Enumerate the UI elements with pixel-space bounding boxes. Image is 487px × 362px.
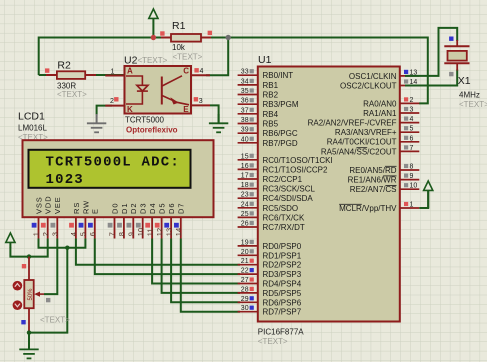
wire opto E to ground: [210, 105, 219, 123]
svg-text:RD3/PSP3: RD3/PSP3: [263, 270, 302, 279]
svg-text:<TEXT>: <TEXT>: [173, 53, 203, 62]
ground bottom left: [28, 333, 30, 349]
svg-text:21: 21: [241, 258, 249, 265]
U1 pin 20 RD1/PSP1: [238, 254, 258, 256]
svg-text:LM016L: LM016L: [18, 124, 47, 133]
svg-text:RD2/PSP2: RD2/PSP2: [263, 261, 302, 270]
svg-text:RA4/T0CKI/C1OUT: RA4/T0CKI/C1OUT: [327, 138, 397, 147]
junction node R1 right / RA0 / opto C: [226, 35, 231, 40]
svg-text:15: 15: [241, 153, 249, 160]
junction pot bottom: [27, 330, 31, 334]
svg-text:26: 26: [241, 221, 249, 228]
svg-text:D1: D1: [120, 203, 129, 214]
svg-text:RW: RW: [81, 200, 90, 214]
svg-text:8: 8: [117, 232, 126, 236]
svg-text:1: 1: [32, 232, 41, 236]
U1 pin 3 (right): [400, 112, 420, 114]
LCD screen: [29, 150, 191, 188]
svg-text:22: 22: [241, 268, 249, 275]
svg-text:RC5/SDO: RC5/SDO: [263, 204, 299, 213]
svg-text:<TEXT>: <TEXT>: [138, 56, 168, 65]
junction pot top: [27, 254, 31, 258]
wire D6 to RD6: [171, 239, 240, 303]
svg-text:12: 12: [155, 228, 164, 236]
svg-text:MCLR/Vpp/THV: MCLR/Vpp/THV: [339, 204, 397, 213]
svg-text:5: 5: [79, 232, 88, 236]
svg-text:RB1: RB1: [263, 81, 279, 90]
wire VEE to pot wiper: [44, 239, 57, 295]
U1 pin 16 RC1/T1OSI/CCP2: [238, 168, 258, 170]
svg-text:RD6/PSP6: RD6/PSP6: [263, 298, 302, 307]
potentiometer RV (LCD contrast): [28, 257, 30, 280]
svg-text:RA1/AN1: RA1/AN1: [363, 109, 397, 118]
svg-text:10k: 10k: [172, 43, 186, 52]
power +5V arrow MCLR: [427, 190, 429, 208]
wire D7 to RD7: [181, 239, 240, 312]
svg-text:RB6/PGC: RB6/PGC: [263, 129, 298, 138]
svg-text:4MHz: 4MHz: [459, 90, 480, 99]
svg-text:RB4: RB4: [263, 110, 279, 119]
wire D5 to RD5: [162, 239, 240, 293]
wire opto C to R1 junction: [206, 38, 228, 76]
svg-text:VSS: VSS: [34, 196, 43, 214]
svg-text:1: 1: [410, 202, 414, 209]
svg-text:11: 11: [145, 228, 154, 236]
crystal X1: [456, 40, 458, 46]
svg-text:D6: D6: [167, 203, 176, 214]
svg-text:2: 2: [110, 98, 114, 105]
svg-text:7: 7: [410, 145, 414, 152]
svg-text:RD1/PSP1: RD1/PSP1: [263, 251, 302, 260]
svg-text:X1: X1: [458, 75, 471, 87]
wire OSC1 to crystal: [405, 28, 457, 76]
ground under opto K (gray): [96, 114, 98, 123]
svg-text:23: 23: [241, 192, 249, 199]
U1 pin 38 RB5: [238, 123, 258, 125]
U1 pin 34 RB1: [238, 84, 258, 86]
svg-text:40: 40: [241, 136, 249, 143]
U1 pin 1 (right): [400, 207, 420, 209]
LCD LM016L body: [23, 140, 214, 217]
U1 pin 40 RB7/PGD: [238, 142, 258, 144]
svg-text:4: 4: [410, 116, 414, 123]
resistor R1: [161, 37, 171, 39]
svg-text:2: 2: [41, 232, 50, 236]
svg-text:9: 9: [410, 173, 414, 180]
svg-text:10: 10: [410, 183, 418, 190]
svg-text:3: 3: [410, 107, 414, 114]
U1 pin 22 RD3/PSP3: [238, 273, 258, 275]
svg-text:RD5/PSP5: RD5/PSP5: [263, 289, 302, 298]
U1 pin 13 (right): [400, 75, 420, 77]
U1 pin 37 RB4: [238, 113, 258, 115]
optocoupler U2 TCRT5000: [105, 75, 124, 77]
svg-text:VDD: VDD: [44, 195, 53, 214]
svg-text:C: C: [183, 67, 189, 76]
svg-text:6: 6: [410, 135, 414, 142]
U1 pin 7 (right): [400, 150, 420, 152]
svg-text:RC3/SCK/SCL: RC3/SCK/SCL: [263, 185, 316, 194]
svg-text:16: 16: [241, 163, 249, 170]
svg-text:13: 13: [164, 228, 173, 236]
svg-text:RC1/T1OSI/CCP2: RC1/T1OSI/CCP2: [263, 165, 328, 174]
svg-text:U1: U1: [258, 54, 272, 66]
svg-text:RS: RS: [72, 202, 81, 214]
U1 pin 4 (right): [400, 122, 420, 124]
svg-text:E: E: [183, 105, 189, 114]
svg-text:D3: D3: [139, 203, 148, 214]
U1 pin 17 RC2/CCP1: [238, 178, 258, 180]
U1 pin 8 (right): [400, 169, 420, 171]
U1 pin 9 (right): [400, 179, 420, 181]
pot adjust buttons: [13, 281, 23, 291]
power +5V arrow top: [152, 18, 154, 37]
svg-text:4: 4: [200, 68, 204, 75]
svg-text:RE0/AN5/RD: RE0/AN5/RD: [349, 166, 396, 175]
svg-text:RD7/PSP7: RD7/PSP7: [263, 308, 302, 317]
svg-text:36: 36: [241, 98, 249, 105]
svg-text:RC0/T1OSO/T1CKI: RC0/T1OSO/T1CKI: [263, 156, 333, 165]
svg-text:<TEXT>: <TEXT>: [57, 90, 87, 99]
svg-text:E: E: [91, 208, 100, 214]
wire ground drop from rail: [29, 248, 67, 333]
svg-text:LCD1: LCD1: [18, 111, 45, 123]
U1 pin 10 (right): [400, 188, 420, 190]
svg-text:<TEXT>: <TEXT>: [459, 100, 487, 109]
ground under opto E: [218, 114, 220, 123]
U1 pin 2 (right): [400, 102, 420, 104]
svg-text:19: 19: [241, 239, 249, 246]
svg-text:RC2/CCP1: RC2/CCP1: [263, 175, 303, 184]
svg-text:<TEXT>: <TEXT>: [258, 337, 288, 346]
svg-text:D2: D2: [129, 203, 138, 214]
wire opto K to ground: [97, 106, 112, 115]
svg-text:RB2: RB2: [263, 91, 279, 100]
svg-text:A: A: [127, 67, 133, 76]
svg-text:RA2/AN2/VREF-/CVREF: RA2/AN2/VREF-/CVREF: [308, 119, 397, 128]
svg-text:RE1/AN6/WR: RE1/AN6/WR: [348, 176, 397, 185]
svg-text:TCRT5000: TCRT5000: [125, 116, 165, 125]
junction rail/ground: [65, 246, 69, 250]
svg-text:R1: R1: [172, 20, 186, 32]
svg-text:D0: D0: [110, 203, 119, 214]
svg-text:37: 37: [241, 107, 249, 114]
U1 pin 19 RD0/PSP0: [238, 245, 258, 247]
svg-text:1: 1: [111, 68, 115, 75]
svg-text:33: 33: [241, 69, 249, 76]
svg-text:VEE: VEE: [53, 196, 62, 214]
U1 pin 5 (right): [400, 131, 420, 133]
wire VSS/RW ground rail: [39, 239, 86, 248]
svg-text:5: 5: [410, 126, 414, 133]
svg-text:RC4/SDI/SDA: RC4/SDI/SDA: [263, 194, 314, 203]
svg-text:18: 18: [241, 182, 249, 189]
U1 pin 25 RC6/TX/CK: [238, 216, 258, 218]
svg-text:20: 20: [241, 249, 249, 256]
wire MCLR to +5V arrow: [419, 190, 428, 208]
resistor R2: [46, 74, 57, 76]
svg-text:7: 7: [108, 232, 117, 236]
wire RS to RD2: [76, 239, 240, 265]
svg-text:RD0/PSP0: RD0/PSP0: [263, 242, 302, 251]
U1 pin 36 RB3/PGM: [238, 103, 258, 105]
svg-text:29: 29: [241, 296, 249, 303]
svg-text:OSC1/CLKIN: OSC1/CLKIN: [349, 72, 397, 81]
U1 pin 21 RD2/PSP2: [238, 264, 258, 266]
U1 pin 24 RC5/SDO: [238, 207, 258, 209]
svg-text:RA3/AN3/VREF+: RA3/AN3/VREF+: [335, 128, 397, 137]
U1 pin 30 RD7/PSP7: [238, 311, 258, 313]
svg-text:U2: U2: [124, 55, 138, 67]
U1 pin 39 RB6/PGC: [238, 132, 258, 134]
pot wiper arrow: [36, 293, 44, 295]
svg-text:25: 25: [241, 211, 249, 218]
svg-text:9: 9: [127, 232, 136, 236]
svg-text:D5: D5: [158, 203, 167, 214]
svg-text:RD4/PSP4: RD4/PSP4: [263, 280, 302, 289]
U1 pin 29 RD6/PSP6: [238, 301, 258, 303]
svg-text:K: K: [127, 105, 133, 114]
svg-text:28: 28: [241, 286, 249, 293]
U1 pin 33 RB0/INT: [238, 74, 258, 76]
svg-text:RE2/AN7/CS: RE2/AN7/CS: [350, 185, 397, 194]
svg-text:RB7/PGD: RB7/PGD: [263, 139, 298, 148]
svg-text:35: 35: [241, 88, 249, 95]
svg-text:Optoreflexivo: Optoreflexivo: [126, 126, 178, 135]
wire D4 to RD4: [152, 239, 240, 284]
wire +5V rail to VDD: [10, 239, 47, 257]
svg-text:<TEXT>: <TEXT>: [40, 316, 70, 325]
svg-text:RC6/TX/CK: RC6/TX/CK: [263, 213, 305, 222]
U1 pin 6 (right): [400, 141, 420, 143]
svg-text:2: 2: [410, 97, 414, 104]
svg-text:RA5/AN4/SS/C2OUT: RA5/AN4/SS/C2OUT: [321, 147, 397, 156]
svg-text:RA0/AN0: RA0/AN0: [363, 99, 397, 108]
svg-text:38: 38: [241, 117, 249, 124]
U1 pin 15 RC0/T1OSO/T1CKI: [238, 159, 258, 161]
U1 pin 18 RC3/SCK/SCL: [238, 188, 258, 190]
svg-text:17: 17: [241, 173, 249, 180]
U1 pin 26 RC7/RX/DT: [238, 226, 258, 228]
svg-text:39: 39: [241, 127, 249, 134]
wire top net: VCC/R1/RA0 horizontal: [39, 38, 428, 104]
svg-text:6: 6: [88, 232, 97, 236]
svg-text:10: 10: [136, 228, 145, 236]
svg-text:OSC2/CLKOUT: OSC2/CLKOUT: [340, 81, 397, 90]
svg-text:27: 27: [241, 277, 249, 284]
U1 pin 23 RC4/SDI/SDA: [238, 197, 258, 199]
wire R2 to opto A: [39, 74, 125, 76]
svg-text:RB0/INT: RB0/INT: [263, 71, 294, 80]
wire E to RD3: [95, 239, 240, 275]
svg-text:50%: 50%: [28, 288, 34, 301]
U1 pin 28 RD5/PSP5: [238, 292, 258, 294]
svg-text:PIC16F877A: PIC16F877A: [258, 328, 304, 337]
svg-text:TCRT5000L ADC:: TCRT5000L ADC:: [46, 154, 180, 170]
svg-text:1023: 1023: [46, 172, 84, 188]
svg-text:34: 34: [241, 78, 249, 85]
svg-text:3: 3: [51, 232, 60, 236]
U1 pin 27 RD4/PSP4: [238, 283, 258, 285]
svg-text:D7: D7: [177, 203, 186, 214]
U1 pin 14 (right): [400, 85, 420, 87]
svg-text:4: 4: [69, 232, 78, 236]
U1 pin 35 RB2: [238, 94, 258, 96]
power +5V arrow left: [9, 242, 11, 247]
svg-text:3: 3: [199, 98, 203, 105]
svg-text:D4: D4: [148, 203, 157, 214]
svg-text:8: 8: [410, 164, 414, 171]
junction node R1 left / VCC: [151, 35, 156, 40]
svg-text:330R: 330R: [57, 81, 76, 90]
svg-text:R2: R2: [57, 59, 71, 71]
wire OSC2 to crystal: [405, 70, 457, 86]
svg-text:14: 14: [174, 228, 183, 236]
svg-text:RB3/PGM: RB3/PGM: [263, 100, 299, 109]
svg-text:24: 24: [241, 201, 249, 208]
svg-text:30: 30: [241, 305, 249, 312]
svg-text:RC7/RX/DT: RC7/RX/DT: [263, 223, 305, 232]
svg-text:RB5: RB5: [263, 120, 279, 129]
